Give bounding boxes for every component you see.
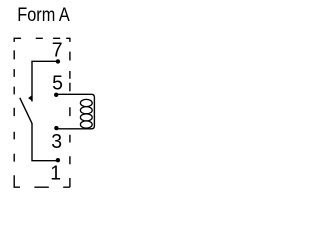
pin 7 terminal dot bbox=[56, 59, 60, 63]
pin 5 terminal dot bbox=[54, 93, 58, 97]
relay enclosure dashed box: bottom edge bbox=[14, 186, 70, 188]
pin 3 terminal dot bbox=[54, 126, 58, 130]
svg-text:Form A: Form A bbox=[17, 4, 69, 26]
pin 7 wire (horizontal + vertical to fixed contact) bbox=[32, 61, 58, 101]
coil loop 2 bbox=[80, 107, 92, 114]
svg-text:1: 1 bbox=[50, 162, 61, 185]
coil loop 3 bbox=[80, 114, 92, 121]
coil loop 1 bbox=[80, 99, 92, 106]
relay enclosure dashed box: right edge bbox=[69, 38, 71, 188]
svg-text:7: 7 bbox=[52, 39, 63, 62]
svg-text:3: 3 bbox=[51, 131, 62, 154]
switch blade (movable contact) bbox=[20, 98, 32, 124]
pin 1 terminal dot bbox=[56, 158, 60, 162]
coil loop 4 bbox=[80, 121, 92, 128]
title Form A bbox=[17, 4, 69, 26]
coil outline (top lead, right side, bottom lead) bbox=[56, 94, 94, 129]
svg-text:5: 5 bbox=[52, 72, 63, 95]
pin 1 wire (vertical from blade + horizontal to dot) bbox=[32, 123, 58, 161]
fixed contact triangle bbox=[28, 95, 32, 101]
relay enclosure dashed box: top edge bbox=[14, 37, 70, 39]
relay enclosure dashed box: left edge bbox=[13, 38, 15, 188]
